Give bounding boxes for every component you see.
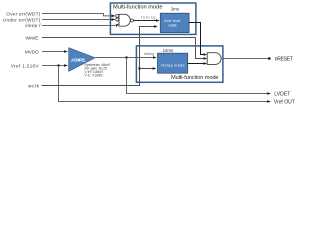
wire Vref OUT branch bbox=[59, 66, 271, 103]
svg-text:Under err(WDT): Under err(WDT) bbox=[3, 17, 41, 23]
wire nand output to One shot mode bbox=[134, 19, 160, 22]
wire One shot output to AND gate top input bbox=[189, 23, 207, 56]
wire wclk branch to Delay clock input bbox=[140, 67, 157, 70]
junction node Vref branch bbox=[57, 64, 59, 66]
svg-text:falling: falling bbox=[141, 16, 156, 20]
wire Under err(WDT) input bbox=[42, 18, 115, 21]
svg-text:WAKE: WAKE bbox=[26, 35, 39, 41]
and gate U2 (reset combine) bbox=[207, 53, 221, 65]
svg-text:mode: mode bbox=[169, 24, 177, 28]
svg-text:2ms: 2ms bbox=[171, 6, 179, 11]
svg-text:Vref 1.216V: Vref 1.216V bbox=[11, 63, 40, 69]
wire MVDD input to comparator bbox=[42, 50, 68, 53]
svg-text:MVDD: MVDD bbox=[25, 49, 40, 55]
svg-text:wclk: wclk bbox=[28, 83, 40, 89]
svg-text:nRESET: nRESET bbox=[275, 56, 293, 62]
junction node wclk branch bbox=[138, 67, 140, 69]
block Multi-function mode (top box) bbox=[110, 3, 195, 34]
wire nRESET output bbox=[221, 57, 271, 60]
block Delay mode bbox=[158, 53, 188, 73]
svg-text:One shot: One shot bbox=[164, 19, 180, 23]
wire LVDET branch bbox=[127, 58, 272, 95]
svg-text:Multi-function mode: Multi-function mode bbox=[113, 4, 163, 10]
svg-text:sleep f: sleep f bbox=[25, 23, 41, 29]
wire Vref input to comparator bbox=[42, 64, 68, 67]
value label comparator specs bbox=[85, 63, 112, 77]
comparator ACMP2L bbox=[69, 48, 95, 72]
wire comparator output to Delay mode bbox=[95, 56, 157, 59]
svg-text:Delay mode: Delay mode bbox=[161, 62, 184, 67]
svg-text:Over err(WDT): Over err(WDT) bbox=[6, 11, 40, 17]
wire wclk to One shot clock input bbox=[42, 25, 158, 85]
svg-text:LVDET: LVDET bbox=[274, 91, 290, 97]
svg-text:falling: falling bbox=[144, 52, 154, 56]
svg-text:12ms: 12ms bbox=[163, 48, 174, 53]
wire Delay output to AND gate bottom input bbox=[188, 62, 208, 65]
svg-text:V IL: 4.608V: V IL: 4.608V bbox=[85, 73, 104, 77]
svg-text:ACMP2L: ACMP2L bbox=[71, 57, 86, 62]
block One shot mode bbox=[160, 13, 189, 32]
svg-text:Multi-function mode: Multi-function mode bbox=[171, 75, 219, 81]
wire WAKE input to AND gate middle input bbox=[42, 38, 207, 60]
block Multi-function mode (bottom box) bbox=[136, 46, 223, 82]
junction node comparator output branch bbox=[125, 56, 127, 58]
nand gate U1 (WDT error combine) bbox=[116, 14, 134, 26]
svg-text:Vref OUT: Vref OUT bbox=[274, 99, 295, 105]
wire Over err(WDT) input bbox=[42, 14, 115, 18]
wire sleep f input bbox=[42, 24, 119, 27]
